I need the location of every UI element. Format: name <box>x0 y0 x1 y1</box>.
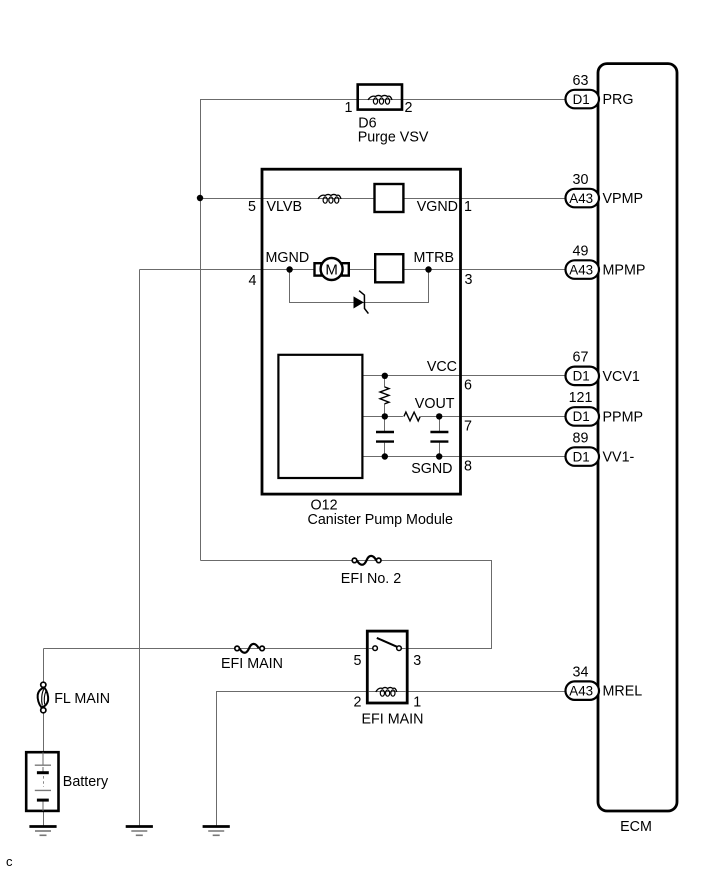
svg-text:PPMP: PPMP <box>603 409 644 425</box>
wire motor bypass loop MGND to MTRB <box>290 270 429 303</box>
svg-text:D1: D1 <box>573 409 590 424</box>
ground relay pin 2 <box>203 827 230 836</box>
wire VOUT-to-SGND branch left capacitor gap <box>384 417 386 457</box>
connector pin 30 A43 (VPMP) <box>566 189 600 208</box>
svg-text:30: 30 <box>573 172 589 188</box>
connector pin 89 D1 (VV1-) <box>566 447 600 466</box>
wire PRG net: from node A to ECM pin 63 <box>201 100 567 561</box>
connector pin 34 A43 (MREL) <box>566 681 600 700</box>
wire MGND ground vertical <box>139 270 141 828</box>
svg-text:A43: A43 <box>569 683 593 698</box>
svg-text:Purge VSV: Purge VSV <box>358 129 429 145</box>
wire VCC net: sensor block to ECM pin 67 <box>362 375 566 377</box>
svg-text:121: 121 <box>569 390 593 406</box>
motor M brushes <box>315 263 349 275</box>
svg-text:VGND: VGND <box>417 199 458 215</box>
svg-text:D1: D1 <box>573 369 590 384</box>
svg-text:VV1-: VV1- <box>603 450 635 466</box>
svg-text:VOUT: VOUT <box>415 396 455 412</box>
junction VOUT left node <box>382 413 388 419</box>
svg-text:A43: A43 <box>569 262 593 277</box>
svg-text:1: 1 <box>413 694 421 710</box>
wire VLVB net: node A to module pin 5 and VGND to ECM pin 30 <box>201 198 567 200</box>
svg-text:5: 5 <box>354 653 362 669</box>
svg-text:2: 2 <box>354 694 362 710</box>
svg-text:1: 1 <box>345 100 353 116</box>
fuse EFI No.2 <box>352 556 381 565</box>
junction VOUT right node <box>436 413 442 419</box>
svg-text:3: 3 <box>413 653 421 669</box>
sensor block inside module <box>278 355 362 478</box>
svg-text:3: 3 <box>465 272 473 288</box>
svg-text:49: 49 <box>573 243 589 259</box>
relay coil <box>369 687 406 696</box>
junction node A on VLVB line <box>197 195 203 201</box>
wire VOUT net: sensor block to resistor, resistor to ECM pin 121 <box>362 416 566 418</box>
svg-text:VPMP: VPMP <box>603 191 644 207</box>
wire VCC-to-VOUT branch with resistor gap <box>384 376 386 417</box>
motor driver square on MTRB line <box>375 254 403 282</box>
battery <box>26 752 58 811</box>
ground under battery <box>29 827 56 836</box>
svg-text:SGND: SGND <box>411 461 452 477</box>
svg-text:Canister Pump Module: Canister Pump Module <box>308 512 453 528</box>
motor M circle <box>321 258 343 280</box>
junction MGND node <box>286 266 292 272</box>
svg-text:MTRB: MTRB <box>413 250 454 266</box>
connector pin 63 D1 (PRG) <box>566 90 600 109</box>
ground MGND line <box>126 827 153 836</box>
coil inside D6 Purge VSV <box>368 95 392 104</box>
svg-text:FL MAIN: FL MAIN <box>54 691 110 707</box>
svg-text:67: 67 <box>573 350 589 366</box>
svg-text:63: 63 <box>573 73 589 89</box>
svg-text:ECM: ECM <box>620 819 652 835</box>
wire battery positive vertical through FL MAIN <box>43 649 45 828</box>
connector pin 121 D1 (PPMP) <box>566 407 600 426</box>
wire MREL net: relay pin 1 to ECM pin 34 <box>407 691 566 693</box>
svg-text:VCV1: VCV1 <box>603 369 640 385</box>
coil on VLVB line inside module <box>318 194 341 203</box>
capacitor C left between VOUT and SGND <box>376 432 394 442</box>
svg-text:7: 7 <box>464 418 472 434</box>
svg-text:EFI MAIN: EFI MAIN <box>362 712 424 728</box>
svg-text:VLVB: VLVB <box>267 199 303 215</box>
wire EFI No.2 net: node A down to relay pin 3 <box>201 561 492 649</box>
resistor R horizontal on VOUT line <box>404 412 420 421</box>
svg-text:PRG: PRG <box>603 92 634 108</box>
wire MGND/MTRB net: ground line to module pin 4, pin 3 to ECM pin 49 <box>140 269 567 271</box>
fusible link FL MAIN <box>38 682 49 713</box>
wire relay pin 2 to ground <box>217 692 368 828</box>
svg-text:EFI MAIN: EFI MAIN <box>221 656 283 672</box>
relay EFI MAIN box <box>367 631 407 703</box>
relay switch contacts <box>369 638 406 651</box>
svg-text:M: M <box>325 262 338 279</box>
module O12 Canister Pump Module box <box>262 169 461 494</box>
wire VOUT-node-to-SGND branch right capacitor gap <box>439 417 441 457</box>
svg-text:MGND: MGND <box>266 250 310 266</box>
junction SGND left node <box>382 453 388 459</box>
svg-text:D1: D1 <box>573 449 590 464</box>
svg-text:5: 5 <box>248 199 256 215</box>
wire SGND net: sensor block to ECM pin 89 <box>362 456 566 458</box>
ECM box <box>598 64 677 811</box>
svg-text:MPMP: MPMP <box>603 263 646 279</box>
svg-text:D1: D1 <box>573 92 590 107</box>
svg-text:EFI No. 2: EFI No. 2 <box>341 571 401 587</box>
junction MTRB node <box>425 266 431 272</box>
svg-text:1: 1 <box>464 199 472 215</box>
svg-text:34: 34 <box>573 664 589 680</box>
svg-text:MREL: MREL <box>603 684 643 700</box>
connector pin 49 A43 (MPMP) <box>566 260 600 279</box>
svg-text:c: c <box>6 854 13 869</box>
zener diode in bypass loop <box>354 291 368 314</box>
svg-text:2: 2 <box>405 100 413 116</box>
svg-text:6: 6 <box>464 377 472 393</box>
svg-text:89: 89 <box>573 430 589 446</box>
svg-text:8: 8 <box>464 459 472 475</box>
junction SGND right node <box>436 453 442 459</box>
junction VCC branch node <box>382 373 388 379</box>
svg-text:Battery: Battery <box>63 774 109 790</box>
svg-text:A43: A43 <box>569 191 593 206</box>
connector pin 67 D1 (VCV1) <box>566 367 600 386</box>
solenoid valve D6 Purge VSV box <box>358 85 402 110</box>
wire EFI MAIN supply: FL MAIN to relay pin 5 <box>44 648 368 650</box>
valve driver square on VLVB line <box>375 184 404 212</box>
capacitor C right between VOUT and SGND <box>430 432 448 442</box>
svg-text:4: 4 <box>249 273 257 289</box>
resistor R vertical between VCC and VOUT <box>380 387 389 404</box>
fuse EFI MAIN <box>235 644 265 653</box>
svg-text:VCC: VCC <box>427 359 457 375</box>
